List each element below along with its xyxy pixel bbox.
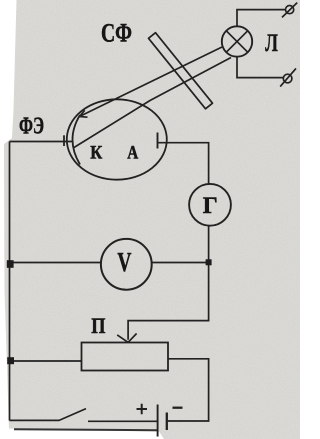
- svg-text:П: П: [91, 313, 105, 338]
- svg-text:Л: Л: [265, 30, 278, 57]
- svg-text:ФЭ: ФЭ: [19, 113, 44, 139]
- svg-text:К: К: [90, 144, 103, 164]
- svg-text:А: А: [127, 144, 139, 164]
- svg-text:V: V: [117, 246, 131, 277]
- svg-text:СФ: СФ: [101, 18, 132, 47]
- svg-text:Г: Г: [203, 193, 218, 219]
